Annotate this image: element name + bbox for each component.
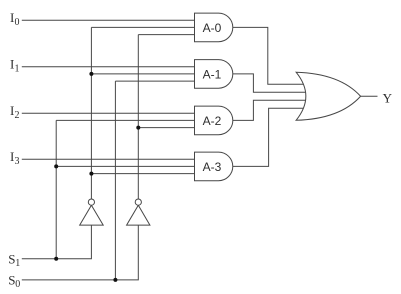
svg-text:A-1: A-1 <box>203 67 222 81</box>
svg-text:1: 1 <box>15 258 20 269</box>
wire I0 <box>22 19 195 21</box>
wire OR output Y <box>361 95 378 97</box>
junction dot S1-bar to A-3 <box>89 172 93 176</box>
wire net S1-bar branch to A-0 <box>91 26 194 28</box>
wire net S1 branch to A-2 <box>56 119 194 121</box>
junction dot S0 bus <box>113 278 117 282</box>
svg-text:0: 0 <box>15 17 20 28</box>
wire net S0-bar branch to A-0 <box>138 34 194 36</box>
wire net S1-bar branch to A-1 <box>91 73 194 75</box>
and-gate A-2 <box>195 106 233 135</box>
wire S0 input to inverter U2 <box>22 225 139 280</box>
junction dot S0-bar to A-2 <box>136 126 140 130</box>
svg-text:A-0: A-0 <box>203 21 222 35</box>
svg-text:0: 0 <box>15 279 20 290</box>
wire net S1 vertical bus <box>55 120 57 258</box>
and-gate A-3 <box>195 152 233 181</box>
svg-text:A-2: A-2 <box>203 114 222 128</box>
wire A-1 output to OR input 2 <box>233 74 308 92</box>
wire I2 <box>22 112 195 114</box>
wire I1 <box>22 66 195 68</box>
svg-text:Y: Y <box>383 91 393 106</box>
wire net S0 vertical bus <box>114 81 116 280</box>
wire net S0 branch to A-1 <box>115 80 194 82</box>
and-gate A-0 <box>195 13 233 42</box>
inverter U1 bubble <box>88 199 94 205</box>
wire net S0-bar branch to A-2 <box>138 127 194 129</box>
inverter U2 triangle (S0) <box>127 205 150 225</box>
svg-text:2: 2 <box>15 110 20 121</box>
wire net S1 branch to A-3 <box>56 165 194 167</box>
wire A-3 output to OR input 4 <box>233 108 306 166</box>
wire net S1-bar branch to A-3 <box>91 173 194 175</box>
junction dot S1-bar to A-1 <box>89 72 93 76</box>
wire net S0-bar vertical bus <box>137 35 139 200</box>
inverter U1 triangle (S1) <box>80 205 104 225</box>
wire S1 input to inverter U1 <box>22 225 92 259</box>
wire A-0 output to OR input 1 <box>233 27 306 84</box>
svg-text:3: 3 <box>15 156 20 167</box>
wire I3 <box>22 158 195 160</box>
or-gate <box>296 72 361 120</box>
svg-text:A-3: A-3 <box>203 160 222 174</box>
and-gate A-1 <box>195 60 233 89</box>
junction dot S1 to A-3 <box>54 164 58 168</box>
wire A-2 output to OR input 3 <box>233 100 308 120</box>
wire net S1-bar vertical bus <box>90 27 92 199</box>
svg-text:1: 1 <box>15 63 20 74</box>
junction dot S1 bus <box>54 257 58 261</box>
inverter U2 bubble <box>135 199 141 205</box>
